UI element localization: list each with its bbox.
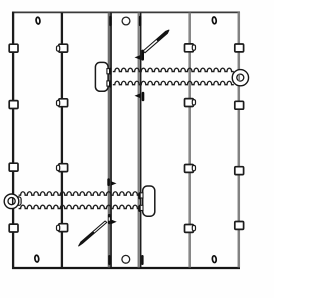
slot mark top of right seam wire bbox=[139, 16, 141, 26]
left border wire of left panel bbox=[12, 12, 14, 269]
interior wire of left panel bbox=[61, 13, 63, 268]
slot mark top of left seam wire bbox=[109, 16, 111, 26]
top border of panel assembly bbox=[12, 11, 240, 13]
wire clip col2 row1 bbox=[57, 44, 68, 52]
slot mark bottom of left seam wire bbox=[108, 255, 110, 265]
insertion arrow lower-top (points right) bbox=[111, 181, 117, 186]
oval slot top-right bbox=[212, 17, 217, 24]
upper tie tail sticking out of seam bbox=[143, 30, 169, 53]
wire clip col4 row4 bbox=[235, 222, 244, 230]
round hole top-center bbox=[122, 17, 130, 25]
upper cable tie: serrated strap top edge bbox=[113, 68, 234, 71]
oval slot top-left bbox=[36, 17, 41, 24]
wire clip col4 row3 bbox=[235, 167, 244, 175]
slot mark at upper-bottom arrow bbox=[142, 92, 145, 102]
wire clip col4 row2 bbox=[235, 101, 244, 109]
slot mark upper strap at left seam (bottom) bbox=[109, 81, 112, 88]
lower cable tie: serrated strap bottom edge bbox=[19, 205, 140, 208]
wire clip col1 row2 bbox=[9, 101, 18, 109]
wire clip col2 row4 bbox=[57, 224, 68, 232]
wire clip col1 row1 bbox=[9, 44, 18, 52]
insertion arrow upper-top (points left) bbox=[135, 55, 141, 60]
wire clip col3 row4 bbox=[185, 225, 196, 233]
wire clip col3 row1 bbox=[185, 44, 196, 52]
right panel left-edge wire (black) at seam bbox=[140, 13, 142, 268]
lower tie pass-through pill slot bbox=[140, 186, 155, 216]
slot mark at lower-bottom arrow (with open center) bbox=[108, 214, 111, 224]
slot mark lower strap at right seam (top) bbox=[138, 193, 141, 200]
lower tie ring head at left border bbox=[4, 194, 21, 209]
bottom border of panel assembly bbox=[12, 267, 240, 269]
left panel right-edge wire (black) at seam bbox=[110, 13, 112, 268]
wire clip col4 row1 bbox=[235, 44, 244, 52]
slot mark lower strap at right seam (bottom) bbox=[138, 205, 141, 212]
slot mark at lower-top arrow bbox=[107, 178, 110, 186]
round hole bottom-center bbox=[122, 255, 130, 263]
oval slot bottom-right bbox=[212, 256, 217, 263]
oval slot bottom-left bbox=[34, 255, 39, 262]
wire clip col2 row2 bbox=[57, 99, 68, 107]
wire clip col2 row3 bbox=[57, 164, 68, 172]
slot mark upper strap at left seam (top) bbox=[109, 68, 112, 75]
wire clip col3 row3 bbox=[185, 165, 196, 173]
wire clip col1 row3 bbox=[9, 163, 18, 171]
insertion arrow upper-bottom (points left) bbox=[135, 93, 141, 98]
right border wire of right panel (gray) bbox=[238, 12, 241, 267]
wire clip col1 row4 bbox=[9, 224, 18, 232]
left panel right-edge wire (gray) at seam bbox=[108, 13, 110, 268]
interior wire of right panel (gray) bbox=[188, 13, 191, 268]
slot mark bottom of right seam wire bbox=[141, 255, 143, 265]
upper cable tie: serrated strap bottom edge bbox=[113, 81, 234, 84]
upper tie ring head at right border bbox=[232, 70, 248, 86]
lower tie tail sticking out of seam bbox=[79, 221, 107, 246]
insertion arrow lower-bottom (points right) bbox=[111, 220, 117, 225]
lower cable tie: serrated strap top edge bbox=[19, 192, 140, 195]
wire clip col3 row2 bbox=[185, 99, 196, 107]
upper tie pass-through pill slot bbox=[95, 62, 110, 91]
right panel left-edge wire (gray) at seam bbox=[138, 13, 140, 268]
slot mark at upper-top arrow bbox=[141, 50, 144, 61]
